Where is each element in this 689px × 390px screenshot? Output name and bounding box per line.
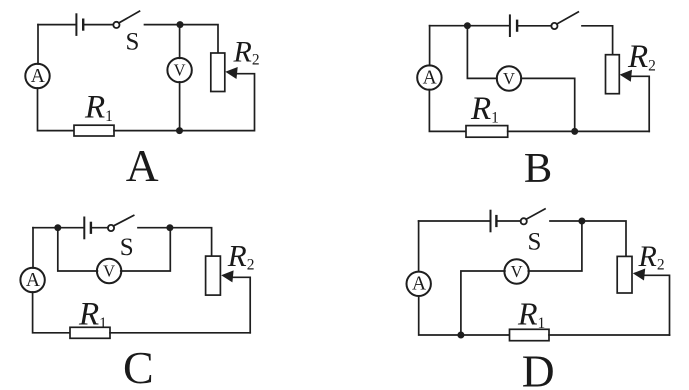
wire battery to switch (B) (519, 25, 552, 27)
wire left side down to ammeter (D) (418, 221, 420, 272)
wire battery to switch (85, 24, 114, 26)
svg-text:A: A (26, 270, 40, 291)
rheostat R2 body (C) (206, 256, 221, 295)
node junction dot top (D) (578, 218, 585, 225)
svg-text:S: S (125, 29, 139, 56)
resistor R1 (D) (510, 329, 550, 340)
wire wiper line down right side (D) (642, 275, 670, 335)
wire switch to top-right corner down to R2 (B) (582, 26, 613, 55)
wire left side down to ammeter (C) (32, 228, 34, 268)
svg-text:A: A (423, 68, 437, 89)
ammeter A (B) (417, 65, 441, 89)
wire top-left corner to battery (D) (419, 220, 490, 222)
ammeter A (C) (20, 268, 44, 292)
node junction dot bottom (A) (176, 127, 183, 134)
svg-text:R2: R2 (638, 240, 665, 273)
node junction dot right (C) (166, 224, 173, 231)
svg-text:A: A (412, 274, 426, 295)
node junction dot bottom (D) (457, 332, 464, 339)
svg-text:V: V (503, 69, 515, 88)
node junction dot top (B) (464, 22, 471, 29)
wire node down and to voltmeter (B) (467, 26, 497, 79)
switch S blade (119, 11, 139, 23)
wire bottom R1 to bottom-right corner, up to wiper line (114, 74, 255, 131)
svg-text:R1: R1 (470, 91, 499, 127)
voltmeter V (C) (97, 259, 121, 283)
switch pivot circle (C) (108, 225, 114, 231)
wire ammeter to bottom-left corner (B) (429, 90, 466, 132)
svg-text:R1: R1 (84, 89, 113, 125)
voltmeter V (D) (504, 259, 528, 283)
resistor R1 (B) (466, 126, 508, 138)
wire wiper line to bottom (B) (629, 76, 649, 131)
svg-text:R2: R2 (233, 35, 260, 68)
wire battery to switch (C) (93, 227, 109, 229)
battery cell long plate (D) (490, 211, 492, 232)
switch blade (D) (526, 209, 545, 219)
voltmeter V (B) (497, 66, 521, 90)
resistor R1 (A) (74, 125, 114, 136)
svg-text:R2: R2 (627, 39, 656, 75)
wire switch to top-right corner, down to R2 (145, 25, 219, 53)
battery cell long plate (B) (509, 15, 511, 36)
wire top-left corner to battery (C) (33, 227, 83, 229)
svg-text:A: A (126, 140, 159, 191)
wire node1 down to voltmeter (C) (58, 228, 98, 271)
battery cell short plate (C) (90, 223, 92, 233)
switch blade (C) (114, 215, 134, 225)
wire switch to top-right corner down to R2 (C) (138, 228, 212, 256)
svg-text:S: S (528, 229, 542, 256)
switch S pivot circle (113, 22, 119, 28)
svg-text:A: A (31, 66, 45, 87)
wire voltmeter to bottom node (179, 82, 181, 131)
svg-text:S: S (120, 234, 134, 261)
svg-text:R1: R1 (78, 296, 107, 332)
wire node to voltmeter (179, 25, 181, 59)
wire voltmeter right to bottom node (B) (521, 78, 575, 131)
resistor R1 (C) (70, 327, 110, 338)
wire node down to voltmeter (D) (528, 221, 582, 271)
switch pivot circle (D) (521, 218, 527, 224)
svg-text:C: C (123, 342, 154, 390)
rheostat R2 body (D) (617, 256, 632, 293)
rheostat R2 wiper arrow (C) (221, 270, 233, 282)
battery cell short plate (B) (516, 21, 518, 31)
battery cell long plate (75, 14, 77, 35)
wire ammeter to bottom-left corner (D) (419, 296, 510, 335)
rheostat R2 wiper arrow (D) (633, 269, 645, 281)
wire battery to switch (D) (498, 220, 521, 222)
wire top-left from corner to battery (38, 24, 76, 26)
battery cell short plate (D) (495, 216, 497, 226)
switch blade (B) (557, 12, 578, 24)
wire left side to ammeter (B) (429, 26, 431, 66)
node junction dot bottom (B) (571, 128, 578, 135)
wire ammeter to bottom-left corner (38, 88, 75, 131)
svg-text:R2: R2 (227, 238, 255, 274)
voltmeter V (A) (167, 58, 191, 82)
svg-text:V: V (103, 262, 115, 281)
wire bottom R1 to right corner (B) (508, 130, 650, 132)
rheostat R2 body (B) (606, 55, 620, 94)
svg-text:V: V (511, 262, 523, 281)
svg-text:R1: R1 (517, 295, 545, 332)
node junction dot top (A) (177, 21, 184, 28)
node junction dot left (C) (54, 224, 61, 231)
battery cell long plate (C) (83, 218, 85, 239)
wire voltmeter left down to bottom node (D) (461, 271, 505, 335)
ammeter A (A) (25, 64, 49, 88)
svg-text:B: B (524, 145, 552, 192)
switch pivot circle (B) (551, 23, 557, 29)
svg-text:V: V (174, 61, 186, 80)
rheostat R2 wiper arrow (B) (620, 70, 632, 82)
svg-text:D: D (522, 345, 555, 390)
wire bottom R1 to right corner (C) (110, 332, 250, 334)
battery cell short plate (82, 20, 84, 30)
wire top-left corner to battery (B) (430, 25, 509, 27)
rheostat R2 body (A) (211, 53, 225, 92)
wire ammeter to bottom-left corner (C) (33, 292, 70, 333)
wire wiper line down right side (C) (230, 277, 250, 333)
wire switch to top-right corner down to R2 (D) (550, 221, 626, 256)
wire voltmeter right up to node2 (C) (121, 228, 171, 271)
rheostat R2 wiper arrow (A) (225, 67, 237, 79)
wire bottom R1 to right corner (D) (549, 334, 670, 336)
wire left side down to ammeter (37, 25, 39, 64)
ammeter A (D) (407, 272, 431, 296)
